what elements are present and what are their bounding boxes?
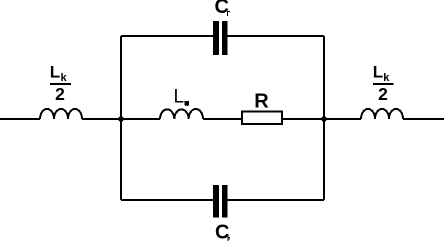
wire bottom branch right (228, 199, 325, 201)
svg-text:k: k (61, 72, 68, 84)
svg-text:k: k (383, 72, 390, 84)
svg-text:C: C (215, 0, 229, 18)
wire node A to middle inductor (121, 118, 160, 120)
wire vertical branch right (node B up) (323, 36, 325, 119)
wire vertical branch left (node A up) (120, 36, 122, 119)
wire left inductor to node A (82, 118, 121, 120)
wire node B to right inductor (324, 118, 361, 120)
svg-text:L: L (174, 87, 185, 108)
wire vertical branch right (node B down) (323, 119, 325, 200)
capacitor Ck (bottom) plates (213, 185, 227, 218)
node B junction dot (321, 116, 327, 122)
wire input left (0, 118, 40, 120)
inductor L3 (Lk/2 right) (361, 109, 403, 119)
wire middle inductor to resistor (203, 118, 242, 120)
inductor L2 (Lw) (160, 109, 203, 119)
wire resistor to node B (282, 118, 324, 120)
resistor R (242, 112, 282, 125)
label Lk/2 (left) (50, 63, 71, 104)
wire top branch right (228, 35, 325, 37)
label Ck (bottom capacitor) (215, 222, 230, 241)
svg-text:2: 2 (55, 84, 65, 104)
inductor L1 (Lk/2 left) (40, 109, 82, 119)
label Lw (middle inductor) (174, 87, 189, 108)
node A junction dot (118, 116, 124, 122)
svg-text:L: L (373, 63, 383, 82)
wire top branch left (121, 35, 214, 37)
capacitor Cr (top) plates (213, 21, 227, 55)
wire bottom branch left (121, 199, 214, 201)
wire vertical branch left (node A down) (120, 119, 122, 200)
wire output right (403, 118, 444, 120)
svg-text:L: L (50, 63, 60, 82)
svg-text:2: 2 (378, 84, 388, 104)
label Lk/2 (right) (373, 63, 394, 104)
label Cr (top capacitor) (215, 0, 230, 18)
svg-text:C: C (215, 222, 229, 241)
svg-text:R: R (254, 90, 269, 112)
